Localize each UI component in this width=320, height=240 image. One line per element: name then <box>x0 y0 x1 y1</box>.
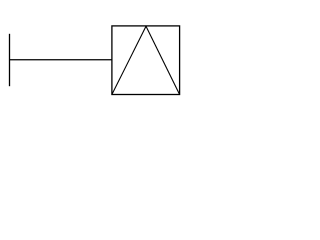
component box U1 <box>112 26 180 95</box>
triangle right edge (symbol inside box) <box>146 26 180 94</box>
terminal P1 <box>9 34 11 86</box>
triangle left edge (symbol inside box) <box>112 26 146 94</box>
wire <box>10 59 112 61</box>
